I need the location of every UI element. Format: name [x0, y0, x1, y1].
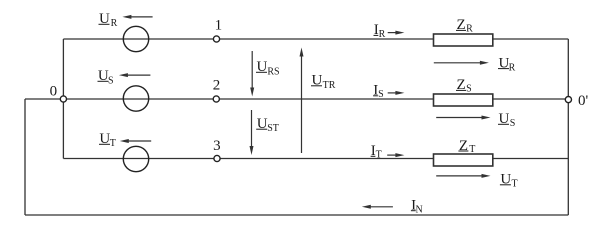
svg-text:S: S	[510, 118, 516, 129]
svg-text:R: R	[379, 29, 386, 40]
svg-text:1: 1	[215, 18, 223, 34]
svg-text:S: S	[108, 76, 114, 87]
svg-text:0': 0'	[578, 93, 589, 109]
svg-text:TR: TR	[323, 80, 336, 91]
svg-text:S: S	[378, 89, 384, 100]
svg-text:T: T	[512, 179, 518, 190]
svg-text:R: R	[509, 63, 516, 74]
svg-text:3: 3	[213, 138, 221, 154]
svg-text:ST: ST	[267, 123, 279, 134]
svg-text:T: T	[376, 150, 382, 161]
svg-text:0: 0	[50, 84, 58, 100]
svg-text:2: 2	[213, 77, 221, 93]
svg-text:S: S	[466, 84, 472, 95]
svg-text:R: R	[466, 24, 473, 35]
svg-text:RS: RS	[267, 67, 279, 78]
svg-text:N: N	[416, 205, 423, 216]
svg-text:R: R	[111, 18, 118, 29]
svg-text:T: T	[110, 138, 116, 149]
svg-text:T: T	[469, 144, 475, 155]
